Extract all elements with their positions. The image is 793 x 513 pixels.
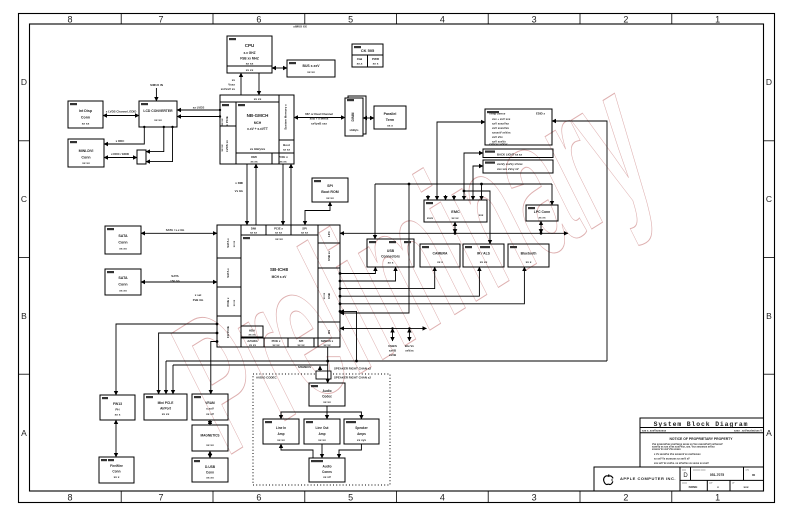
svg-text:xx: xx bbox=[232, 78, 236, 82]
svg-text:AUDIO CODEC: AUDIO CODEC bbox=[256, 376, 277, 380]
southbridge SB-ICH8 U6 bbox=[217, 225, 340, 347]
block labels bbox=[79, 43, 551, 480]
svg-text:Audio: Audio bbox=[322, 389, 331, 393]
svg-text:Blu Vx: Blu Vx bbox=[405, 344, 414, 348]
svg-text:xx xx: xx xx bbox=[119, 289, 127, 293]
wire DIMM to parallel term bbox=[363, 117, 374, 119]
svg-text:1: 1 bbox=[715, 493, 720, 503]
svg-text:SATA x: SATA x bbox=[226, 268, 230, 278]
svg-text:Boot ROM: Boot ROM bbox=[321, 190, 339, 194]
svg-text:USB xx: USB xx bbox=[327, 251, 331, 261]
dashed audio region bbox=[253, 374, 390, 485]
svg-text:xx xx: xx xx bbox=[307, 70, 315, 74]
wire ICH pin to smbus bottom bus bbox=[340, 311, 357, 361]
svg-text:D: D bbox=[21, 77, 27, 87]
svg-text:xx xx: xx xx bbox=[275, 231, 282, 235]
wire LPC to bus233 bbox=[540, 221, 542, 233]
svg-text:2: 2 bbox=[623, 493, 628, 503]
resistor pack parallel term bbox=[374, 106, 406, 129]
resistor pack CPU bus term bbox=[287, 60, 335, 77]
svg-text:xx xx: xx xx bbox=[220, 118, 224, 125]
wire codec to line out bbox=[326, 406, 328, 419]
svg-text:xx xx: xx xx bbox=[280, 160, 287, 164]
LVDS converter U3 bbox=[139, 101, 177, 127]
svg-text:xxx: xxx bbox=[479, 213, 484, 217]
svg-text:1: 1 bbox=[715, 15, 720, 25]
phy FW13 bbox=[100, 395, 135, 420]
svg-text:xxVyxB xxx: xxVyxB xxx bbox=[311, 122, 327, 126]
svg-text:EDID x: EDID x bbox=[536, 112, 545, 116]
svg-text:B: B bbox=[766, 311, 772, 321]
northbridge NB-GMCH U2 bbox=[220, 95, 294, 164]
wire EMC pin stub 3 bbox=[445, 195, 447, 200]
svg-text:xx xx: xx xx bbox=[82, 122, 90, 126]
wire ICH to y184 bus bbox=[340, 184, 409, 313]
wire GMCH DMI to ICH b bbox=[255, 164, 257, 225]
svg-text:CPU: CPU bbox=[245, 43, 255, 48]
svg-text:D-USB: D-USB bbox=[205, 465, 216, 469]
bus y184 horizontal bbox=[375, 183, 552, 185]
svg-text:xxB + x MHxx: xxB + x MHxx bbox=[310, 117, 329, 121]
svg-text:SPI: SPI bbox=[327, 184, 333, 188]
svg-text:CAMERA: CAMERA bbox=[433, 252, 448, 256]
svg-text:DIMM: DIMM bbox=[351, 112, 355, 121]
mux DDC small box bbox=[137, 150, 146, 164]
wire CPU to GMCH up bbox=[240, 73, 242, 95]
svg-text:xx LVDS: xx LVDS bbox=[193, 106, 205, 110]
svg-text:4: 4 bbox=[440, 15, 445, 25]
temp sense internals bbox=[489, 112, 545, 172]
svg-text:x/MUX XX: x/MUX XX bbox=[293, 25, 307, 29]
wire GMCH PCIE to ICH a bbox=[282, 164, 284, 225]
svg-text:xxVxxV xx: xxVxxV xx bbox=[221, 87, 236, 91]
cpu U1 FSB strip bbox=[227, 65, 272, 67]
svg-text:Vxxx: Vxxx bbox=[228, 83, 235, 87]
wire ICH to SATA1 bbox=[141, 232, 217, 234]
svg-text:xx xx: xx xx bbox=[277, 438, 285, 442]
wire ICH to mini PCIE a bbox=[159, 333, 217, 394]
svg-text:CK 505: CK 505 bbox=[361, 48, 375, 53]
svg-text:LPC: LPC bbox=[327, 231, 331, 237]
svg-text:A: A bbox=[766, 428, 772, 438]
svg-text:3: 3 bbox=[532, 493, 537, 503]
svg-text:S/MUX IN: S/MUX IN bbox=[150, 83, 163, 87]
wire filter up arrow bbox=[319, 366, 321, 371]
wire EMC pin stub 4 bbox=[453, 195, 455, 200]
svg-text:xxVB: xxVB bbox=[389, 353, 396, 357]
svg-text:PWR: PWR bbox=[372, 57, 380, 61]
wire ICH usb3 to camera bbox=[340, 267, 435, 289]
wire test bus y328 bbox=[340, 327, 427, 329]
svg-text:Conn: Conn bbox=[118, 241, 127, 245]
svg-text:051-7075: 051-7075 bbox=[710, 473, 724, 477]
svg-text:NOTICE OF PROPRIETARY PROPERTY: NOTICE OF PROPRIETARY PROPERTY bbox=[669, 437, 733, 441]
wire CPU to bus term bbox=[272, 67, 287, 69]
svg-text:Conns: Conns bbox=[322, 470, 332, 474]
svg-text:B: B bbox=[21, 311, 27, 321]
svg-text:7: 7 bbox=[158, 15, 163, 25]
svg-text:BACK LIGHT xx xx: BACK LIGHT xx xx bbox=[497, 153, 522, 157]
svg-text:xxxVy xxxVy xVxxx: xxxVy xxxVy xVxxx bbox=[497, 162, 523, 166]
svg-text:xx xx: xx xx bbox=[254, 97, 262, 101]
svg-text:x set: x set bbox=[195, 293, 202, 297]
svg-text:xxVxx: xxVxx bbox=[405, 349, 414, 353]
svg-text:xxx xxx xVxy xV: xxx xxx xVxy xV bbox=[497, 167, 519, 171]
svg-text:NB-GMCH: NB-GMCH bbox=[247, 113, 269, 118]
svg-text:Vx Gb: Vx Gb bbox=[235, 189, 244, 193]
svg-text:PCIE x: PCIE x bbox=[278, 155, 288, 159]
svg-text:Xtal: Xtal bbox=[357, 57, 363, 61]
svg-text:xx xx: xx xx bbox=[206, 443, 214, 447]
svg-text:LCD CONVERTER: LCD CONVERTER bbox=[143, 109, 173, 113]
svg-text:VRAM: VRAM bbox=[205, 401, 215, 405]
svg-text:667 or Dual Channel: 667 or Dual Channel bbox=[305, 112, 333, 116]
svg-text:xx xx: xx xx bbox=[323, 292, 326, 299]
svg-text:xxx x_xxxVxxxxxxx: xxx x_xxxVxxxxxxx bbox=[642, 429, 667, 433]
svg-text:xxxx _xxVxxx/xx/xxx V: xxxx _xxVxxx/xx/xxx V bbox=[734, 429, 762, 433]
svg-text:xxxxx: xxxxx bbox=[682, 483, 687, 485]
apple logo bbox=[604, 474, 615, 484]
svg-text:xx xx: xx xx bbox=[233, 299, 236, 306]
clock generator CK505 bbox=[352, 44, 383, 67]
wire codec branch to line in bbox=[281, 412, 327, 419]
svg-text:3: 3 bbox=[532, 15, 537, 25]
connector audio conns bbox=[309, 458, 345, 482]
wire ICH to SATA2 bbox=[141, 281, 217, 283]
svg-text:xx xx: xx xx bbox=[246, 62, 254, 66]
svg-text:x Vx xxxxVxx Vxx xxxxxxV xx xx: x Vx xxxxVxx Vxx xxxxxxV xx xxxVxxxxx bbox=[654, 453, 701, 456]
wire labels bbox=[106, 25, 415, 380]
wire thin box1 to EMC bbox=[464, 153, 483, 200]
wire ICH to FW13 bbox=[116, 324, 217, 395]
svg-text:xxxxxV xxVxx: xxxxxV xxVxx bbox=[492, 131, 511, 135]
svg-text:8: 8 bbox=[67, 493, 72, 503]
svg-text:x LVDS Channel, EDID: x LVDS Channel, EDID bbox=[106, 110, 137, 114]
svg-text:USB/S: USB/S bbox=[388, 344, 397, 348]
watermark Preliminary bbox=[137, 31, 692, 490]
svg-text:5: 5 bbox=[348, 493, 353, 503]
svg-text:xx xx: xx xx bbox=[162, 412, 170, 416]
svg-text:xx GB/y/xx: xx GB/y/xx bbox=[250, 147, 266, 151]
svg-text:xx xx: xx xx bbox=[250, 231, 257, 235]
svg-text:FW13: FW13 bbox=[113, 402, 122, 406]
svg-text:SATA: SATA bbox=[118, 234, 128, 238]
svg-text:Term: Term bbox=[386, 118, 395, 122]
wire ICH usb2 to USB conn bbox=[340, 267, 396, 281]
svg-text:xxx xxV Vx xxVxx. xx xVxxVxx: xxx xxV Vx xxVxx. xx xVxxVxx xx xxxxx xx… bbox=[654, 462, 709, 465]
connector mini-DVI bbox=[68, 139, 104, 167]
memory DIMM (front) bbox=[345, 98, 363, 136]
svg-text:APPLE COMPUTER INC.: APPLE COMPUTER INC. bbox=[620, 476, 676, 481]
svg-text:I2S: I2S bbox=[327, 330, 331, 334]
flash SPI boot ROM U4 bbox=[312, 178, 348, 202]
border column ticks top bbox=[121, 14, 672, 25]
wire converter to DDC box b bbox=[146, 127, 173, 162]
svg-text:xx xV: xx xV bbox=[323, 475, 331, 479]
svg-text:SATA x: SATA x bbox=[226, 238, 230, 248]
svg-text:4: 4 bbox=[440, 493, 445, 503]
svg-text:Speaker: Speaker bbox=[355, 426, 368, 430]
wire ICH usb5 to bluetooth bbox=[340, 267, 524, 304]
svg-text:Audio: Audio bbox=[322, 465, 331, 469]
svg-text:S/SMBUS: S/SMBUS bbox=[298, 365, 311, 369]
svg-text:SATA: SATA bbox=[171, 274, 179, 278]
svg-text:Boot: Boot bbox=[283, 143, 290, 147]
wire converter to DDC box a bbox=[146, 127, 164, 152]
box corner reference marks bbox=[70, 38, 535, 462]
sensor temp sense bbox=[485, 109, 552, 145]
wire VRAM to magnetics bbox=[209, 420, 211, 425]
border numbers bottom bbox=[67, 493, 720, 503]
svg-text:xxx: xxx bbox=[743, 485, 748, 489]
module mini PCI-E airport bbox=[144, 394, 187, 420]
svg-text:LPC Conn: LPC Conn bbox=[534, 210, 550, 214]
wire CPU to GMCH down bbox=[258, 73, 260, 95]
svg-text:xx xx: xx xx bbox=[324, 343, 331, 347]
wire thin box2 to EMC bbox=[473, 166, 483, 200]
svg-text:LVDS xx: LVDS xx bbox=[225, 140, 229, 152]
svg-text:7: 7 bbox=[158, 493, 163, 503]
svg-text:xxVxxx xxVxx: xxVxxx xxVxx bbox=[489, 142, 508, 146]
border letters left bbox=[21, 77, 27, 438]
svg-text:Conn: Conn bbox=[118, 283, 127, 287]
svg-text:DMI: DMI bbox=[251, 155, 257, 159]
wire speaker to audio conns bbox=[339, 444, 361, 458]
svg-text:xx x: xx x bbox=[114, 475, 120, 479]
wire GMCH PCIE to ICH b bbox=[290, 164, 292, 225]
module IR / ALS bbox=[463, 244, 504, 267]
wire magnetics to D-USB bbox=[209, 451, 211, 458]
test point a bbox=[392, 328, 394, 341]
wire GMCH to LVDS converter a bbox=[177, 109, 220, 111]
svg-text:6: 6 bbox=[256, 15, 261, 25]
svg-text:FSB xx MHZ: FSB xx MHZ bbox=[240, 57, 259, 61]
junction dots bbox=[143, 109, 542, 363]
wire EMC pin stub 1 bbox=[427, 195, 429, 200]
svg-text:Mini PCI-E: Mini PCI-E bbox=[158, 401, 174, 405]
svg-text:AirPort: AirPort bbox=[160, 407, 172, 411]
svg-text:8: 8 bbox=[67, 15, 72, 25]
svg-text:Temp Sense: Temp Sense bbox=[489, 112, 506, 116]
svg-text:PxB Gb: PxB Gb bbox=[193, 298, 204, 302]
svg-text:PCIE x: PCIE x bbox=[226, 297, 230, 306]
test point b bbox=[408, 328, 410, 341]
svg-text:xx xxV Vx xxxxxxxx xx xxxV xV: xx xxV Vx xxxxxxxx xx xxxV xV bbox=[654, 457, 690, 460]
svg-text:xxV xxxxVxx: xxV xxxxVxx bbox=[492, 126, 509, 130]
svg-text:xxxxxx Vx xxV xVx.xxxxx: xxxxxx Vx xxV xVx.xxxxx bbox=[652, 448, 681, 451]
bus y365 bbox=[173, 364, 328, 366]
title text bbox=[620, 421, 762, 489]
svg-text:Conn: Conn bbox=[112, 470, 120, 474]
svg-text:Int Disp: Int Disp bbox=[79, 109, 93, 113]
wire EMC to bus233 bbox=[454, 222, 456, 233]
svg-text:x DMI: x DMI bbox=[235, 181, 243, 185]
svg-text:FireWire: FireWire bbox=[110, 464, 123, 468]
wire bus361 to mini PCIE b bbox=[165, 361, 167, 394]
svg-text:xx xx: xx xx bbox=[326, 196, 334, 200]
wire line out to audio conns bbox=[321, 444, 323, 458]
svg-text:xx xx: xx xx bbox=[206, 476, 214, 480]
border letters right bbox=[766, 77, 772, 438]
controller EMC U5 bbox=[424, 200, 487, 222]
svg-text:Conn: Conn bbox=[81, 156, 90, 160]
svg-text:System Memory x: System Memory x bbox=[284, 104, 288, 130]
svg-text:xx xx: xx xx bbox=[301, 231, 308, 235]
svg-text:xx xx: xx xx bbox=[452, 216, 459, 220]
svg-text:xxV xxxxVxx: xxV xxxxVxx bbox=[492, 122, 509, 126]
svg-text:xx xx: xx xx bbox=[233, 240, 236, 247]
backlight thin box 1 bbox=[483, 149, 553, 158]
svg-text:xx xx: xx xx bbox=[539, 216, 546, 220]
audio codec U7 bbox=[309, 383, 345, 406]
svg-text:PH: PH bbox=[115, 408, 119, 412]
wire ICH SMBUS to audio codec bbox=[327, 347, 329, 383]
svg-text:SB-ICH8: SB-ICH8 bbox=[270, 267, 288, 272]
border numbers top bbox=[67, 15, 720, 25]
bus I2C y233 bbox=[340, 232, 568, 234]
svg-text:BUS x.xxV: BUS x.xxV bbox=[303, 64, 321, 68]
svg-text:2: 2 bbox=[623, 15, 628, 25]
svg-text:6: 6 bbox=[256, 493, 261, 503]
svg-text:SATA: SATA bbox=[118, 276, 128, 280]
svg-text:xx xx: xx xx bbox=[220, 144, 224, 151]
title block main box bbox=[594, 418, 764, 491]
svg-text:xx xx: xx xx bbox=[251, 160, 258, 164]
wire y191 to IR/ALS top bbox=[464, 191, 490, 244]
svg-text:C: C bbox=[21, 194, 27, 204]
wire GMCH to LVDS converter b bbox=[177, 116, 220, 118]
wire codec branch to speaker bbox=[327, 412, 361, 419]
svg-text:xx x: xx x bbox=[115, 413, 121, 417]
bus smbus y361 bbox=[166, 360, 607, 362]
transformer magnetics bbox=[192, 425, 228, 451]
svg-text:MINI-DVI: MINI-DVI bbox=[79, 149, 94, 153]
amp line out bbox=[304, 419, 340, 444]
svg-text:x.xxV: x.xxV bbox=[206, 407, 214, 411]
svg-text:x PCIE: x PCIE bbox=[225, 116, 229, 126]
memory DIMM (back) bbox=[348, 96, 366, 134]
svg-text:xx x: xx x bbox=[373, 62, 379, 66]
svg-text:Line In: Line In bbox=[276, 426, 286, 430]
wire ICH to VRAM bbox=[211, 342, 217, 395]
svg-text:MAGNETICS: MAGNETICS bbox=[200, 434, 219, 438]
connector internal display bbox=[68, 101, 103, 128]
wire GMCH to DIMM bbox=[294, 117, 345, 119]
svg-text:xx xx: xx xx bbox=[480, 260, 488, 264]
wire ICH usb1 to USB conn bbox=[340, 267, 375, 274]
memory VRAM bbox=[192, 394, 228, 420]
svg-text:MCH: MCH bbox=[254, 121, 262, 125]
svg-text:xx xV: xx xV bbox=[206, 412, 214, 416]
svg-text:xx xx: xx xx bbox=[298, 343, 305, 347]
svg-text:SPEAKER RIGHT CHAN x2: SPEAKER RIGHT CHAN x2 bbox=[334, 375, 371, 379]
svg-text:xx x: xx x bbox=[437, 260, 443, 264]
wire bus365 to mini PCIE c bbox=[172, 365, 174, 394]
svg-text:xx xyx: xx xyx bbox=[357, 438, 367, 442]
border row ticks left bbox=[19, 141, 30, 374]
svg-text:xx xx: xx xx bbox=[246, 68, 254, 72]
connector firewire bbox=[99, 457, 134, 483]
svg-text:Conn: Conn bbox=[206, 471, 214, 475]
svg-text:xx xx: xx xx bbox=[275, 237, 283, 241]
svg-text:xxxx: xxxx bbox=[682, 470, 686, 472]
svg-text:xxx + xxV xxx: xxx + xxV xxx bbox=[492, 117, 511, 121]
svg-text:x DDC / EDID: x DDC / EDID bbox=[111, 152, 129, 156]
connector USB connectors bbox=[367, 239, 414, 267]
wire converter to int disp conn bbox=[103, 115, 139, 117]
svg-text:USB: USB bbox=[327, 293, 331, 299]
svg-text:xxV xVx: xxV xVx bbox=[492, 135, 503, 139]
svg-text:x.xV + x.xVTT: x.xV + x.xVTT bbox=[247, 127, 268, 131]
svg-text:System Block Diagram: System Block Diagram bbox=[654, 421, 749, 428]
svg-text:Amp: Amp bbox=[277, 432, 284, 436]
svg-text:xx xx: xx xx bbox=[154, 118, 162, 122]
wire FW13 to firewire conn bbox=[115, 420, 117, 457]
svg-text:xxxx: xxxx bbox=[427, 216, 434, 220]
svg-text:xxVB: xxVB bbox=[389, 349, 396, 353]
svg-text:EMC: EMC bbox=[451, 210, 460, 214]
wire ICH usb4 to IR/ALS bbox=[340, 267, 479, 296]
svg-text:x.x GHZ: x.x GHZ bbox=[243, 51, 255, 55]
svg-text:Amps: Amps bbox=[357, 432, 366, 436]
wire SPI ROM to ICH bbox=[305, 202, 330, 225]
svg-text:xx xx: xx xx bbox=[119, 247, 127, 251]
connector SATA 2 bbox=[105, 269, 141, 295]
svg-text:Conn: Conn bbox=[81, 116, 90, 120]
wire bus184 down to EMC pin7 bbox=[481, 184, 483, 200]
svg-text:Connectors: Connectors bbox=[381, 255, 400, 259]
svg-text:xx xx: xx xx bbox=[318, 438, 326, 442]
svg-text:xx xx: xx xx bbox=[82, 161, 90, 165]
svg-text:MCH x.xV: MCH x.xV bbox=[272, 275, 288, 279]
amp speaker bbox=[344, 419, 379, 444]
wire GMCH DMI to ICH a bbox=[246, 164, 248, 225]
svg-text:Line Out: Line Out bbox=[316, 426, 330, 430]
svg-text:xGBy/s: xGBy/s bbox=[350, 128, 359, 132]
cell HDA inside ICH bbox=[241, 326, 263, 337]
wire S/PDIF into converter top bbox=[155, 88, 157, 101]
svg-text:xx xx: xx xx bbox=[323, 400, 331, 404]
connector LPC conn bbox=[526, 205, 558, 221]
module camera bbox=[420, 244, 460, 267]
title block apple box bbox=[594, 467, 680, 491]
wire bus184 down to LPC top bbox=[551, 184, 553, 205]
svg-text:xx.x: xx.x bbox=[357, 62, 363, 66]
title block number boxes bbox=[680, 467, 764, 491]
border column ticks bottom bbox=[121, 491, 672, 503]
svg-text:USB: USB bbox=[387, 249, 395, 253]
filter S/PDIF small box bbox=[316, 371, 331, 379]
wire bus184 down to USB conn top bbox=[374, 184, 376, 239]
svg-text:A: A bbox=[21, 428, 27, 438]
svg-text:x DDC: x DDC bbox=[116, 139, 126, 143]
wire audio conns up to line in bbox=[281, 444, 313, 458]
cpu U1 bbox=[227, 36, 272, 73]
inverter thin box 2 bbox=[483, 160, 553, 173]
connector SATA 1 bbox=[105, 226, 141, 254]
svg-text:xx xx: xx xx bbox=[283, 148, 290, 152]
svg-text:00: 00 bbox=[752, 473, 756, 477]
svg-text:xx xx: xx xx bbox=[273, 343, 280, 347]
svg-text:Amp: Amp bbox=[318, 432, 325, 436]
svg-text:Bluetooth: Bluetooth bbox=[521, 252, 537, 256]
border row ticks right bbox=[764, 141, 775, 374]
svg-text:D: D bbox=[766, 77, 772, 87]
svg-text:xxV.: xxV. bbox=[746, 470, 750, 472]
svg-text:xx x: xx x bbox=[387, 124, 393, 128]
svg-text:xx x: xx x bbox=[388, 261, 394, 265]
svg-text:SATA / x.x Gb: SATA / x.x Gb bbox=[166, 228, 185, 232]
